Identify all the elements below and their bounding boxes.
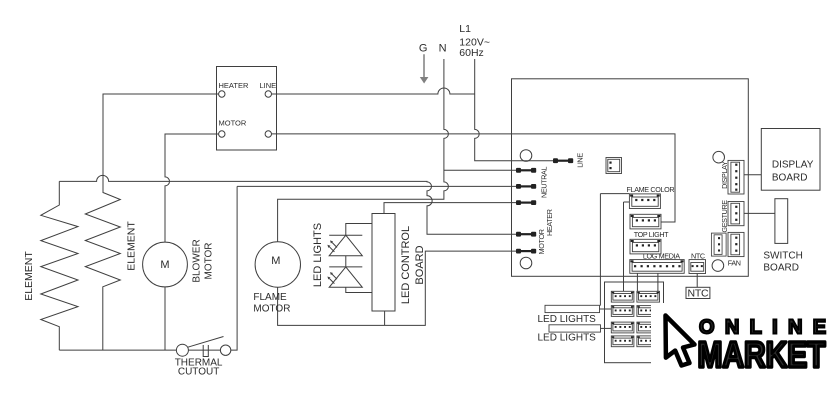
svg-text:MOTOR: MOTOR: [204, 242, 215, 279]
svg-text:DISPLAY: DISPLAY: [772, 160, 814, 171]
svg-text:BOARD: BOARD: [763, 263, 799, 274]
svg-text:M: M: [160, 259, 169, 271]
svg-text:L1: L1: [459, 23, 471, 35]
svg-text:MOTOR: MOTOR: [253, 304, 290, 315]
svg-text:N: N: [439, 43, 447, 55]
svg-text:CUTOUT: CUTOUT: [178, 367, 219, 378]
svg-text:FLAME COLOR: FLAME COLOR: [627, 185, 675, 194]
svg-text:LINE: LINE: [260, 81, 277, 90]
svg-text:LED LIGHTS: LED LIGHTS: [538, 314, 597, 325]
svg-text:NTC: NTC: [691, 251, 705, 260]
svg-text:HEATER: HEATER: [219, 81, 249, 90]
svg-text:LED LIGHTS: LED LIGHTS: [538, 333, 597, 344]
svg-text:MOTOR: MOTOR: [537, 229, 546, 254]
svg-text:M: M: [271, 255, 280, 267]
svg-text:MARKET: MARKET: [698, 335, 827, 375]
svg-text:FAN: FAN: [728, 258, 741, 267]
svg-text:LED CONTROL: LED CONTROL: [400, 226, 412, 304]
svg-text:TOP LIGHT: TOP LIGHT: [634, 230, 669, 239]
svg-text:MOTOR: MOTOR: [219, 119, 247, 128]
svg-text:BOARD: BOARD: [772, 172, 808, 183]
svg-text:HEATER: HEATER: [545, 209, 554, 236]
svg-text:BOARD: BOARD: [414, 245, 426, 284]
svg-text:LINE: LINE: [576, 153, 585, 168]
svg-text:ELEMENT: ELEMENT: [23, 251, 35, 301]
svg-text:BLOWER: BLOWER: [192, 239, 203, 282]
svg-text:NEUTRAL: NEUTRAL: [540, 167, 549, 198]
svg-text:FLAME: FLAME: [253, 292, 287, 303]
svg-text:G: G: [419, 43, 428, 55]
svg-text:LED LIGHTS: LED LIGHTS: [312, 223, 324, 287]
svg-text:SWITCH: SWITCH: [763, 251, 802, 262]
svg-text:60Hz: 60Hz: [459, 47, 484, 59]
svg-text:NTC: NTC: [688, 288, 709, 300]
svg-text:ELEMENT: ELEMENT: [126, 221, 138, 271]
